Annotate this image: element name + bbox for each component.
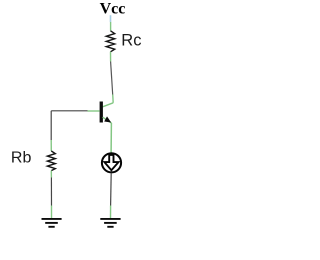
wire <box>50 111 52 151</box>
current source I1 <box>102 153 121 172</box>
resistor Rc <box>106 31 114 52</box>
svg-text:Rb: Rb <box>11 150 32 167</box>
resistor Rb <box>47 151 55 171</box>
wire <box>50 171 52 218</box>
wire <box>110 173 113 218</box>
power Vcc <box>100 1 126 23</box>
label Rb <box>11 150 32 167</box>
ground <box>42 219 62 227</box>
wire <box>111 52 114 103</box>
label Rc <box>121 32 141 50</box>
svg-text:Rc: Rc <box>121 32 141 50</box>
transistor Q1 <box>100 102 114 124</box>
wire <box>51 110 99 112</box>
wire <box>110 22 112 31</box>
ground <box>100 219 120 227</box>
wire <box>110 123 112 153</box>
svg-text:Vcc: Vcc <box>100 1 126 18</box>
